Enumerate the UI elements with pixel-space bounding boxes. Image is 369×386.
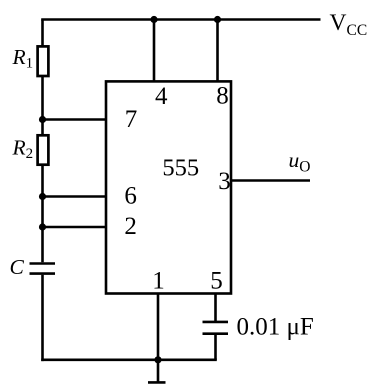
svg-text:VCC: VCC [330, 10, 368, 39]
wire: pin 4 vertical (top rail to box) [153, 20, 156, 82]
wire: R2 bottom to capacitor C [41, 165, 44, 263]
wire: pin 2 horizontal [43, 226, 107, 229]
svg-text:1: 1 [152, 268, 165, 295]
wire: left rail top segment (top rail to R1) [41, 20, 44, 48]
wire: R1 bottom to R2 top [41, 76, 44, 137]
svg-text:R1: R1 [12, 45, 34, 72]
wire: C bottom to bottom rail [41, 275, 44, 361]
svg-text:0.01 μF: 0.01 μF [237, 313, 314, 340]
capacitor C2 (0.01 uF) top plate [203, 321, 229, 324]
svg-text:555: 555 [162, 155, 199, 182]
svg-text:6: 6 [124, 183, 137, 210]
node: junction dot bottom rail / ground [154, 356, 161, 363]
wire: C2 bottom to bottom rail [214, 335, 217, 360]
wire: pin 8 vertical (top rail to box) [216, 20, 219, 82]
node: junction dot pin 6 [39, 193, 46, 200]
capacitor C bottom plate [30, 272, 56, 275]
wire: pin 5 vertical (box to capacitor) [214, 294, 217, 322]
wire: pin 3 output [231, 179, 310, 182]
wire: bottom rail [41, 358, 217, 361]
svg-text:uO: uO [289, 148, 311, 176]
resistor R1 [38, 46, 49, 76]
ground bar [148, 381, 166, 384]
node: junction dot top rail / pin 4 [150, 16, 157, 23]
svg-text:5: 5 [210, 268, 223, 295]
svg-text:2: 2 [124, 213, 137, 240]
wire: pin 1 vertical (box to bottom rail) [157, 294, 160, 360]
wire: top rail (Vcc bus) [41, 18, 320, 21]
wire: pin 7 horizontal [43, 118, 107, 121]
node: junction dot R1/R2/pin7 [39, 116, 46, 123]
wire: pin 6 horizontal [43, 195, 107, 198]
wire: ground stub [157, 360, 160, 383]
svg-text:C: C [10, 255, 25, 279]
svg-text:7: 7 [125, 106, 138, 133]
capacitor C2 (0.01 uF) bottom plate [203, 332, 229, 335]
svg-text:3: 3 [218, 168, 231, 195]
op-amp/IC U1: 555 timer box [106, 81, 231, 293]
svg-text:4: 4 [155, 83, 168, 110]
svg-text:R2: R2 [12, 136, 34, 163]
node: junction dot pin 2 [39, 223, 46, 230]
resistor R2 [38, 135, 49, 164]
capacitor C top plate [30, 262, 56, 265]
node: junction dot top rail / pin 8 [214, 16, 221, 23]
svg-text:8: 8 [216, 83, 229, 110]
